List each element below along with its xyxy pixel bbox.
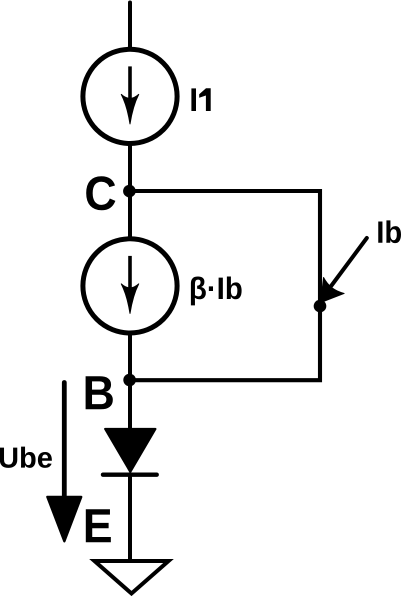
- wire top feed: [128, 3, 132, 50]
- label I1 digit 1: [199, 88, 211, 111]
- label Ib: [378, 220, 401, 243]
- I1 arrowhead: [121, 94, 138, 124]
- ground: [95, 561, 169, 594]
- Ube arrow shaft: [62, 383, 67, 501]
- wire loop C-right-B: [130, 191, 320, 380]
- diode D1 cathode bar: [103, 473, 157, 477]
- node B: [123, 374, 136, 387]
- Ib arrowhead: [310, 278, 344, 311]
- B1 arrow shaft: [128, 256, 132, 290]
- node on right wire: [314, 300, 327, 313]
- label Ube: [0, 447, 52, 468]
- label E: [86, 509, 111, 542]
- diode D1 triangle: [105, 429, 155, 472]
- wire C segment: [128, 143, 132, 240]
- node C: [123, 185, 136, 198]
- wire E segment: [128, 476, 132, 561]
- Ib arrow line: [332, 238, 367, 286]
- wire B segment: [128, 332, 132, 430]
- label I1 letter I: [191, 88, 196, 111]
- label C: [86, 176, 115, 210]
- I1 arrow shaft: [128, 66, 132, 100]
- current source B1 (β·Ib): [83, 239, 177, 333]
- label β·Ib: [191, 277, 242, 306]
- label B: [86, 376, 113, 409]
- current source I1: [83, 49, 177, 143]
- B1 arrowhead: [121, 284, 138, 314]
- Ube arrowhead: [47, 497, 81, 541]
